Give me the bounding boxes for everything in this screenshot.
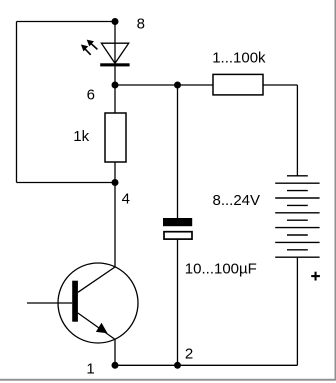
capacitor C1 bottom plate (outlined) bbox=[164, 232, 192, 239]
capacitor C1 top plate (filled) bbox=[163, 218, 192, 226]
node junction dot at capacitor top rail bbox=[174, 82, 181, 89]
wire capacitor bottom lead to node 2 bbox=[177, 239, 179, 365]
svg-text:1k: 1k bbox=[73, 128, 89, 145]
svg-text:1: 1 bbox=[86, 361, 94, 378]
transistor Q1 collector diagonal bbox=[78, 267, 115, 292]
wire top horizontal from left rail to node 8 bbox=[17, 21, 116, 23]
svg-text:1...100k: 1...100k bbox=[212, 49, 266, 66]
node 1 junction dot bbox=[112, 362, 119, 369]
wire node 8 down through LED to resistor R1 top bbox=[114, 22, 116, 114]
svg-text:10...100µF: 10...100µF bbox=[185, 260, 257, 277]
transistor Q1 emitter arrowhead bbox=[96, 323, 108, 333]
svg-text:8: 8 bbox=[137, 16, 145, 33]
wire transistor emitter junction down to node 1 bbox=[114, 339, 116, 365]
wire bottom horizontal node 1 to right rail bbox=[115, 364, 297, 366]
LED D1 cathode bar bbox=[100, 63, 129, 66]
wire left rail vertical bbox=[16, 22, 18, 183]
node 4 junction dot bbox=[112, 179, 119, 186]
LED light arrow lower bbox=[81, 45, 91, 55]
LED D1 triangle bbox=[101, 43, 128, 63]
transistor Q1 base lead wire bbox=[27, 302, 72, 304]
resistor R2 1...100k body bbox=[213, 74, 263, 95]
wire left rail to node 4 horizontal bbox=[17, 182, 116, 184]
wire node 6 horizontal to resistor R2 bbox=[115, 84, 213, 86]
svg-text:2: 2 bbox=[185, 346, 193, 363]
wire resistor R2 right to right rail corner bbox=[263, 84, 297, 86]
node 8 junction dot bbox=[112, 18, 119, 25]
svg-text:8...24V: 8...24V bbox=[213, 192, 261, 209]
battery B1 plus polarity mark bbox=[311, 272, 320, 281]
node 6 junction dot bbox=[112, 82, 119, 89]
wire node 4 down to transistor collector junction bbox=[114, 183, 116, 268]
transistor Q1 emitter diagonal bbox=[78, 313, 115, 339]
wire capacitor top lead bbox=[177, 85, 179, 219]
transistor Q1 base bar bbox=[72, 281, 78, 322]
wire right rail down to battery top bbox=[296, 85, 298, 176]
transistor Q1 body circle bbox=[58, 263, 138, 343]
resistor R1 1k body bbox=[105, 113, 126, 162]
wire resistor R1 bottom to node 4 bbox=[114, 162, 116, 183]
battery B1 plates bbox=[275, 176, 319, 257]
svg-text:6: 6 bbox=[87, 86, 95, 103]
svg-text:4: 4 bbox=[122, 191, 130, 208]
node 2 junction dot bbox=[174, 362, 181, 369]
frame border bottom edge bbox=[0, 379, 336, 381]
LED light arrow upper bbox=[87, 40, 98, 50]
wire right rail battery bottom down to bottom wire bbox=[296, 257, 298, 365]
frame border right edge bbox=[335, 0, 336, 380]
